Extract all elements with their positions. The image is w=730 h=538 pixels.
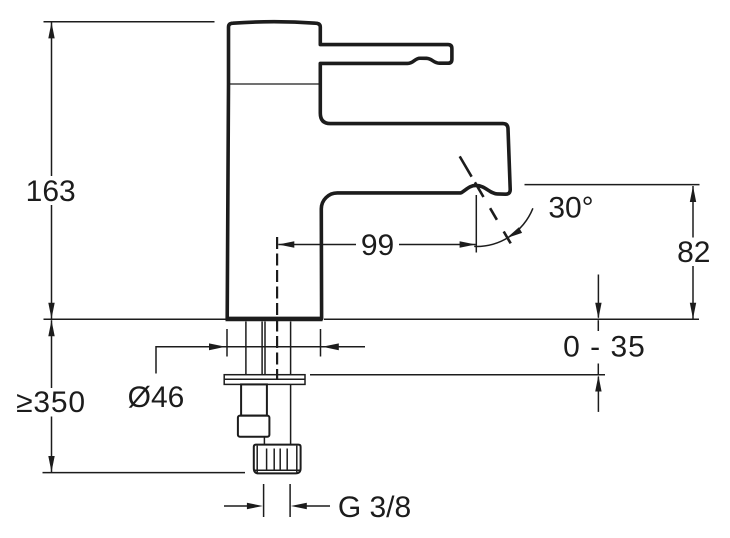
svg-text:163: 163 bbox=[26, 175, 76, 208]
svg-text:Ø46: Ø46 bbox=[128, 381, 185, 414]
svg-text:99: 99 bbox=[361, 229, 394, 262]
svg-text:82: 82 bbox=[677, 236, 710, 269]
svg-text:0 - 35: 0 - 35 bbox=[563, 331, 646, 364]
svg-text:≥350: ≥350 bbox=[16, 386, 86, 419]
svg-text:G 3/8: G 3/8 bbox=[338, 491, 411, 524]
svg-text:30°: 30° bbox=[548, 192, 593, 225]
